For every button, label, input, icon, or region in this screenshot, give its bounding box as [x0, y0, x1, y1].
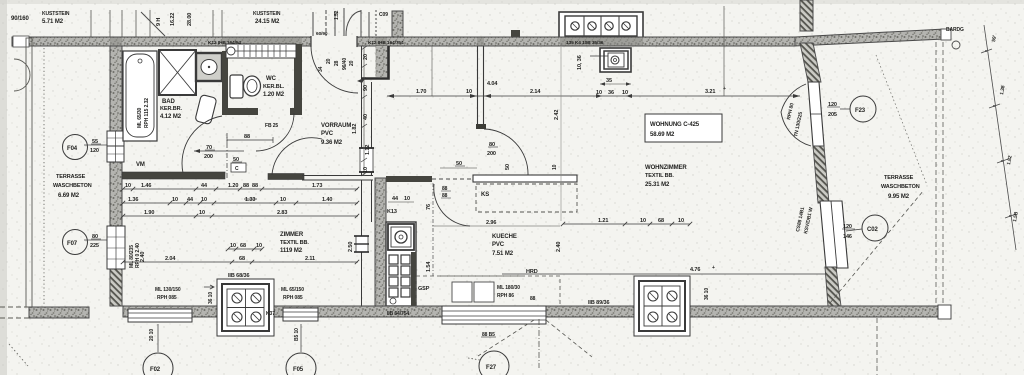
main bottom wall — [123, 306, 949, 317]
svg-text:4.04: 4.04 — [487, 81, 498, 87]
svg-text:10: 10 — [552, 164, 558, 170]
svg-text:28: 28 — [334, 60, 340, 66]
svg-text:RPH 085: RPH 085 — [157, 295, 177, 301]
vanity tilted — [195, 94, 217, 124]
svg-text:3.21: 3.21 — [705, 89, 715, 95]
svg-text:1.36: 1.36 — [128, 197, 138, 203]
svg-text:10: 10 — [280, 197, 286, 203]
svg-text:IIB 68/36: IIB 68/36 — [228, 273, 249, 279]
entry door jambs — [310, 36, 312, 47]
svg-text:WASCHBETON: WASCHBETON — [53, 183, 92, 189]
svg-text:1.33: 1.33 — [245, 197, 255, 203]
svg-text:KUSTSTEIN: KUSTSTEIN — [253, 11, 281, 17]
slant wall hatched piece 1 — [800, 43, 821, 82]
toilet — [230, 75, 261, 98]
svg-text:68: 68 — [658, 218, 664, 224]
wall x478 — [478, 46, 484, 125]
wall top band A — [12, 37, 795, 46]
dash-dot line at niche — [226, 133, 228, 179]
shower with X — [159, 50, 196, 95]
svg-text:K37: K37 — [266, 311, 275, 317]
svg-text:ZIMMER: ZIMMER — [280, 232, 304, 238]
fuse box (4 circles) above wall — [559, 12, 643, 39]
svg-text:2.40: 2.40 — [556, 242, 562, 252]
svg-text:WOHNUNG C-425: WOHNUNG C-425 — [650, 122, 700, 128]
entry door opening — [311, 36, 357, 47]
svg-text:1.52: 1.52 — [334, 10, 340, 20]
svg-text:TERRASSE: TERRASSE — [884, 175, 914, 181]
svg-text:C09: C09 — [379, 12, 388, 18]
svg-text:F05: F05 — [293, 367, 304, 373]
dotted diagonal bottom-left — [9, 344, 28, 366]
svg-text:RPH 085: RPH 085 — [283, 295, 303, 301]
bathtub — [123, 51, 157, 141]
svg-text:10, 36: 10, 36 — [577, 55, 583, 70]
svg-text:10: 10 — [201, 197, 207, 203]
vertical dim chain — [361, 46, 371, 176]
dim 120/205 — [827, 102, 840, 118]
svg-text:2.04: 2.04 — [165, 256, 176, 262]
svg-text:44: 44 — [392, 196, 399, 202]
WC left wall — [222, 51, 228, 115]
svg-text:10: 10 — [172, 197, 178, 203]
balcony divider ticks — [91, 10, 222, 37]
svg-text:C02: C02 — [867, 227, 878, 233]
svg-text:FB 25: FB 25 — [265, 123, 278, 129]
small arrow left of box — [204, 285, 214, 289]
svg-text:36: 36 — [608, 90, 614, 96]
dotted diagonal terrace — [876, 55, 927, 185]
svg-text:1.12: 1.12 — [365, 145, 371, 155]
texts ML 65/150 RPH 085 — [281, 287, 304, 301]
F07 leader + 80/225 — [84, 234, 108, 249]
svg-text:68: 68 — [240, 243, 246, 249]
svg-text:36 10: 36 10 — [704, 288, 710, 300]
pier wall — [376, 46, 388, 77]
band junction shading — [110, 38, 643, 46]
WC bottom wall segments — [222, 108, 258, 115]
svg-text:2.42: 2.42 — [554, 110, 560, 120]
slant door 1 — [808, 82, 824, 146]
text TERRASSE WASCHBETON 9.95 M2 — [881, 175, 920, 200]
small arc at left edge — [14, 59, 30, 91]
svg-text:C: C — [235, 166, 239, 172]
svg-text:KUECHE: KUECHE — [492, 234, 517, 240]
svg-text:1.20 M2: 1.20 M2 — [263, 92, 285, 98]
dim row1 — [121, 183, 359, 191]
text 88 B5 below W5 — [481, 332, 496, 338]
svg-text:20: 20 — [326, 58, 332, 64]
text KUECHE PVC 7.51 M2 — [492, 234, 517, 257]
dim 88 dashed — [227, 134, 273, 143]
slant wall hatched piece 3 — [825, 267, 841, 306]
text HRD — [440, 269, 538, 276]
svg-text:20: 20 — [363, 54, 369, 60]
neighbour vestibule lines above entry — [313, 8, 376, 37]
svg-text:RPH 86: RPH 86 — [497, 293, 514, 299]
right end sill box — [938, 305, 951, 319]
dim line 4.76 — [502, 265, 833, 278]
heater box bottom-right (4 circles) — [634, 276, 690, 336]
niche C box — [231, 163, 246, 172]
text TERRASSE WASCHBETON 6.69 M2 — [53, 174, 92, 199]
svg-text:2.83: 2.83 — [277, 210, 287, 216]
dim row3 — [121, 210, 359, 218]
svg-text:2.96: 2.96 — [486, 220, 496, 226]
circle F23 — [840, 96, 876, 122]
entry door arc — [311, 46, 358, 93]
svg-text:135 K4 10B 35/36: 135 K4 10B 35/36 — [566, 40, 604, 46]
svg-text:205: 205 — [828, 112, 837, 118]
svg-text:7.51 M2: 7.51 M2 — [492, 251, 514, 257]
svg-text:20 10: 20 10 — [149, 329, 155, 341]
svg-text:36 10: 36 10 — [208, 292, 214, 304]
svg-text:88: 88 — [243, 183, 249, 189]
right outer dimension line — [981, 25, 1020, 250]
stove sink block — [386, 222, 416, 306]
text WC KER.BL. 1.20 M2 — [263, 76, 285, 98]
WC right wall — [294, 44, 302, 115]
svg-text:TERRASSE: TERRASSE — [56, 174, 86, 180]
svg-text:RPH 115 2.32: RPH 115 2.32 — [144, 98, 150, 128]
svg-text:1.46: 1.46 — [141, 183, 151, 189]
svg-text:ML 65/150: ML 65/150 — [281, 287, 304, 293]
svg-text:10: 10 — [678, 218, 684, 224]
slant wall hatched piece 2 — [813, 146, 829, 203]
wall left (x110) — [110, 46, 122, 306]
svg-text:+: + — [712, 265, 715, 271]
small fuse box below wall — [590, 48, 631, 72]
dim 88 88 stacked — [441, 186, 451, 199]
terrace outer edge double line — [26, 38, 32, 307]
svg-text:10: 10 — [256, 243, 262, 249]
svg-text:ML 65/30: ML 65/30 — [137, 107, 143, 128]
heater box bottom-left (4 circles) — [217, 279, 274, 336]
svg-text:2.50: 2.50 — [348, 242, 354, 252]
svg-text:10: 10 — [466, 89, 472, 95]
svg-text:F04: F04 — [67, 146, 78, 152]
rotated dim cluster near entry — [318, 58, 355, 72]
svg-text:10: 10 — [230, 243, 236, 249]
wall stub above band — [392, 11, 403, 38]
window W4 — [283, 308, 318, 321]
svg-text:44: 44 — [201, 183, 208, 189]
diagonal mark — [141, 12, 165, 36]
svg-text:1.90: 1.90 — [144, 210, 154, 216]
svg-text:2.40: 2.40 — [140, 252, 146, 262]
svg-text:F07: F07 — [67, 241, 78, 247]
text ZIMMER TEXTIL BB. 1119 M2 — [280, 232, 309, 254]
circle F27 — [479, 351, 509, 375]
svg-text:9.95 M2: 9.95 M2 — [888, 194, 910, 200]
svg-text:K13: K13 — [387, 209, 397, 215]
slant door 2 — [820, 201, 848, 268]
svg-text:2.11: 2.11 — [305, 256, 315, 262]
dashed vertical door edge — [432, 183, 434, 276]
text VORRAUM PVC 9.36 M2 — [321, 123, 351, 146]
svg-text:59': 59' — [991, 35, 998, 42]
svg-text:10: 10 — [596, 90, 602, 96]
small dark box above wall x512 — [511, 30, 520, 38]
svg-text:IIB 89/36: IIB 89/36 — [588, 300, 609, 306]
WC top window band — [226, 44, 296, 58]
hatched wall above band right — [800, 0, 813, 31]
terrace right dashed boundary — [936, 42, 943, 306]
svg-text:16.22: 16.22 — [170, 13, 176, 26]
svg-text:1119 M2: 1119 M2 — [280, 248, 303, 254]
dim 10 68 10 — [226, 243, 264, 251]
svg-text:TEXTIL BB.: TEXTIL BB. — [645, 173, 674, 179]
svg-text:K12 IHB 164/754: K12 IHB 164/754 — [368, 40, 404, 46]
vertical extension line x724 — [723, 6, 725, 96]
lobby door arc — [272, 138, 322, 175]
svg-text:1.54: 1.54 — [426, 261, 432, 272]
dashed vertical below wall right — [876, 318, 878, 375]
main dim line y96 — [387, 81, 800, 98]
svg-text:KER.BR.: KER.BR. — [160, 106, 182, 112]
svg-text:F23: F23 — [855, 108, 866, 114]
svg-text:34: 34 — [318, 66, 324, 72]
svg-text:9.36 M2: 9.36 M2 — [321, 140, 343, 146]
svg-text:96/40: 96/40 — [342, 58, 348, 70]
svg-text:4.12 M2: 4.12 M2 — [160, 114, 182, 120]
svg-text:F27: F27 — [486, 365, 497, 371]
svg-text:ML 180/30: ML 180/30 — [497, 285, 520, 291]
svg-text:9 H: 9 H — [156, 18, 162, 26]
svg-text:5.71 M2: 5.71 M2 — [42, 19, 64, 25]
svg-text:BARDG: BARDG — [946, 27, 964, 33]
svg-text:50: 50 — [505, 164, 511, 170]
KS dashed box — [476, 184, 577, 212]
svg-text:2.14: 2.14 — [530, 89, 541, 95]
svg-text:10: 10 — [125, 183, 131, 189]
svg-text:200: 200 — [204, 154, 213, 160]
window W5 — [442, 306, 546, 324]
door arc into kitchen — [484, 129, 528, 175]
svg-text:IIB 64/754: IIB 64/754 — [387, 311, 409, 317]
door jamb cap x477 — [476, 124, 486, 129]
circle F02 — [143, 324, 173, 375]
bathroom bottom wall right segment — [268, 174, 304, 180]
svg-text:40: 40 — [363, 114, 369, 120]
rotated dim texts 9H 16.22 28.00 — [156, 13, 193, 26]
dashed counter outline — [416, 276, 560, 306]
rotated 35 under small box — [600, 78, 631, 86]
svg-text:B5 10: B5 10 — [294, 328, 300, 341]
text ML 180/30 RPH 86 — [497, 285, 536, 302]
svg-text:BAD: BAD — [162, 99, 175, 105]
svg-text:+: + — [723, 86, 726, 92]
dim 44 10 — [388, 196, 414, 202]
circle C02 — [846, 215, 888, 241]
svg-text:24.15 M2: 24.15 M2 — [255, 19, 280, 25]
dim row 2.04 68 2.11 — [121, 256, 359, 264]
wash basin — [196, 53, 222, 81]
svg-text:VM: VM — [136, 162, 145, 168]
wall top band B (right, slanted) — [795, 29, 944, 46]
text KUSTSTEIN 5.71 M2 — [42, 11, 70, 25]
vertical extension x432 — [431, 46, 433, 96]
window W2 in left wall — [107, 226, 125, 269]
svg-text:10: 10 — [404, 196, 410, 202]
dash-dot vertical under W5 — [538, 319, 540, 368]
svg-text:146: 146 — [843, 234, 852, 240]
svg-text:44: 44 — [187, 197, 194, 203]
svg-text:10: 10 — [363, 167, 369, 173]
dim line y224 — [561, 218, 692, 226]
svg-text:PVC: PVC — [492, 242, 505, 248]
text BAD KER.BR. 4.12 M2 — [160, 99, 182, 120]
svg-text:90/160: 90/160 — [11, 16, 30, 22]
svg-text:10: 10 — [640, 218, 646, 224]
door arcs wohnzimmer — [781, 84, 806, 112]
wall end cap box zimmer — [354, 236, 369, 252]
svg-text:1.21: 1.21 — [598, 218, 608, 224]
door in vertical wall (vorraum-kueche) — [359, 148, 374, 172]
dim row2 — [121, 197, 359, 205]
F04 leader + 55/120 — [84, 139, 108, 154]
svg-text:VORRAUM: VORRAUM — [321, 123, 351, 129]
text WOHNZIMMER TEXTIL BB. 25.31 M2 — [645, 165, 687, 188]
thin double wall zimmer/kueche vertical — [362, 46, 372, 306]
circle F04 — [63, 135, 88, 160]
svg-text:76: 76 — [426, 204, 432, 210]
svg-text:WC: WC — [266, 76, 277, 82]
kitchen door arc — [434, 184, 470, 226]
svg-text:25.31 M2: 25.31 M2 — [645, 182, 670, 188]
svg-text:GSP: GSP — [418, 286, 430, 292]
svg-text:KUSTSTEIN: KUSTSTEIN — [42, 11, 70, 17]
bathroom bottom wall left segment — [122, 172, 225, 179]
cabinet wall double line — [473, 175, 577, 182]
svg-text:200: 200 — [487, 151, 496, 157]
circle F05 — [286, 324, 316, 375]
dim 50 — [440, 161, 477, 168]
band B end box + text BARDG — [941, 29, 951, 40]
svg-text:90: 90 — [363, 85, 369, 91]
kitchen top wall dark segment — [386, 176, 432, 182]
bathroom door arc — [182, 116, 222, 173]
svg-text:KS: KS — [481, 192, 489, 198]
WOHNUNG C-425 box — [645, 114, 722, 142]
counter squares — [452, 282, 494, 302]
svg-text:225: 225 — [90, 243, 99, 249]
svg-text:68: 68 — [239, 256, 245, 262]
svg-text:4.76: 4.76 — [690, 267, 700, 273]
thin double wall vorraum south — [302, 176, 373, 181]
svg-text:35: 35 — [606, 78, 612, 84]
svg-text:WASCHBETON: WASCHBETON — [881, 184, 920, 190]
svg-text:88: 88 — [530, 296, 536, 302]
svg-text:ML 130/150: ML 130/150 — [155, 287, 181, 293]
dashed diagonals under W5 — [468, 320, 592, 360]
svg-text:WOHNZIMMER: WOHNZIMMER — [645, 165, 687, 171]
circle F07 — [63, 230, 88, 255]
circle at band B end — [952, 41, 960, 49]
window W1 in left wall — [107, 131, 124, 162]
terrace overhang dotted line — [43, 48, 45, 305]
svg-text:6.69 M2: 6.69 M2 — [58, 193, 80, 199]
kitchen left wall — [375, 178, 386, 306]
dim 120/146 — [842, 224, 855, 240]
svg-text:20: 20 — [349, 60, 355, 66]
vertical thin line x563 — [560, 47, 562, 221]
bottom terrace wall band — [29, 307, 89, 318]
text KUSTSTEIN 24.15 M2 — [253, 11, 281, 25]
svg-text:TEXTIL BB.: TEXTIL BB. — [280, 240, 309, 246]
svg-text:1.82: 1.82 — [352, 124, 358, 134]
svg-text:58.69 M2: 58.69 M2 — [650, 132, 675, 138]
dim 80/200 — [487, 142, 498, 157]
svg-text:88: 88 — [252, 183, 258, 189]
svg-text:10: 10 — [199, 210, 205, 216]
dim tick triangle — [357, 77, 366, 83]
svg-text:120: 120 — [90, 148, 99, 154]
dim 2.96 — [432, 220, 560, 226]
dashed wall continuation to left edge — [0, 307, 29, 318]
svg-text:F02: F02 — [150, 367, 161, 373]
svg-text:PVC: PVC — [321, 131, 334, 137]
window W3 — [128, 309, 192, 322]
svg-text:88: 88 — [244, 134, 250, 140]
band A left end white box — [13, 36, 29, 47]
svg-text:28.00: 28.00 — [187, 13, 193, 26]
dashed leader to terrace text — [830, 190, 924, 303]
text 50 above niche — [232, 157, 242, 163]
WC door arc — [256, 113, 294, 151]
svg-text:1.20: 1.20 — [228, 183, 238, 189]
dim 70/200 with arrow — [194, 145, 244, 160]
svg-text:1.70: 1.70 — [416, 89, 426, 95]
svg-text:KER.BL.: KER.BL. — [263, 84, 285, 90]
svg-text:10: 10 — [622, 90, 628, 96]
svg-text:1.73: 1.73 — [312, 183, 322, 189]
svg-text:1.40: 1.40 — [322, 197, 332, 203]
kitchen top dashed gap — [432, 178, 473, 180]
texts ML 130/150 RPH 085 — [155, 287, 181, 301]
